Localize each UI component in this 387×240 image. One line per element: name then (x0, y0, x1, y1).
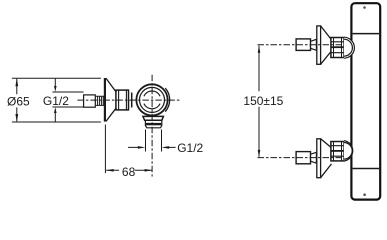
outlet ext lines (146, 130, 162, 152)
dim G1/2 bottom arrow lines (128, 146, 176, 148)
dim G1/2 left arrows (54, 86, 57, 113)
inner circle (gapped at sides) (144, 91, 160, 109)
bottom flange (143, 116, 164, 120)
dim Ø65 arrows (15, 78, 18, 121)
dim G1/2 left ext lines (52, 92, 83, 107)
dim 150±15 line (258, 46, 260, 157)
top arm neck (310, 39, 316, 50)
dim 68 line (106, 169, 152, 171)
dim 150±15 arrows (258, 45, 261, 157)
vertical centerline (151, 75, 153, 177)
dim Ø65 ext line bottom (12, 121, 101, 123)
dim Ø65 vertical line (16, 79, 18, 122)
threads (96, 96, 104, 105)
outlet (145, 120, 161, 128)
washer ring (131, 93, 133, 108)
escutcheon disc face (104, 78, 106, 122)
dim 68 arrows (106, 169, 152, 172)
top arm centerline (258, 44, 353, 46)
svg-text:G1/2: G1/2 (43, 94, 69, 108)
bottom arm dome (344, 141, 353, 161)
bottom arm cone slants (321, 139, 332, 178)
seam top (353, 33, 379, 35)
top arm dome (344, 37, 355, 58)
dim Ø65 ext line top (12, 77, 101, 79)
dim G1/2 bottom arrows (138, 146, 169, 149)
valve body outer circle (136, 84, 167, 115)
svg-text:150±15: 150±15 (243, 94, 283, 108)
bottom arm neck (310, 152, 316, 163)
top arm union nut (331, 38, 344, 58)
union nut (116, 90, 129, 110)
top arm cone slants (321, 26, 331, 64)
bottom dot (363, 193, 366, 196)
dim G1/2 left arrow lines (54, 79, 56, 122)
top arm escutcheon disc (317, 26, 321, 64)
horizontal centerline (77, 99, 181, 101)
top arm square fitting (296, 39, 310, 51)
outlet thread band (146, 123, 162, 125)
top dot (363, 6, 366, 9)
right cap arc (165, 88, 169, 112)
nipple rect (84, 95, 96, 107)
cone slants (106, 78, 116, 121)
body (351, 3, 380, 199)
bottom arm union nut (331, 142, 344, 161)
bottom arm centerline (258, 157, 353, 159)
svg-text:Ø65: Ø65 (7, 94, 30, 108)
svg-text:68: 68 (122, 165, 136, 179)
dim 68 ext line (104, 125, 106, 174)
middle circle (140, 87, 165, 112)
bottom arm escutcheon disc (317, 139, 321, 178)
bottom arm square fitting (296, 152, 310, 164)
svg-text:G1/2: G1/2 (177, 141, 203, 155)
seam bottom (353, 168, 379, 170)
